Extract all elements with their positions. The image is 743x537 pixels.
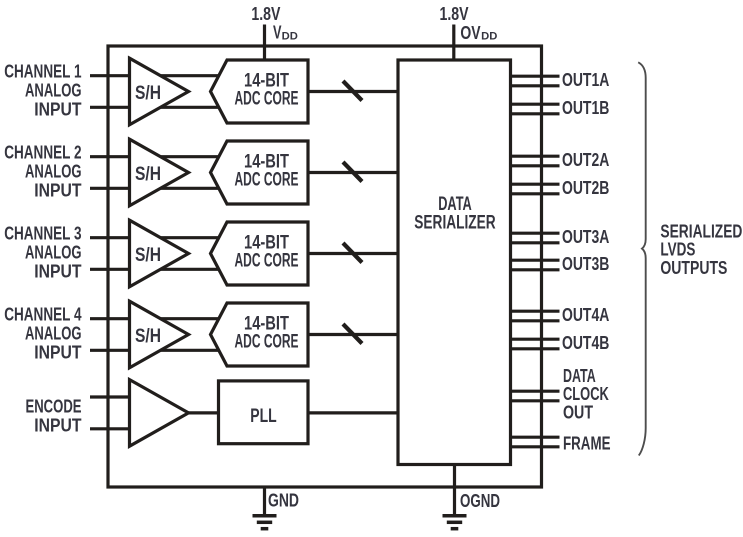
svg-text:INPUT: INPUT [34, 99, 81, 119]
svg-text:INPUT: INPUT [34, 342, 81, 362]
svg-text:CHANNEL 2: CHANNEL 2 [4, 143, 81, 163]
svg-text:OUT1B: OUT1B [562, 98, 609, 118]
svg-text:INPUT: INPUT [34, 415, 81, 435]
svg-text:PLL: PLL [250, 405, 276, 427]
svg-text:SERIALIZED: SERIALIZED [660, 222, 742, 242]
svg-text:ANALOG: ANALOG [25, 81, 82, 101]
svg-text:ENCODE: ENCODE [26, 397, 82, 417]
svg-text:S/H: S/H [135, 325, 161, 347]
svg-text:OUTPUTS: OUTPUTS [660, 258, 727, 278]
svg-text:S/H: S/H [135, 244, 161, 266]
svg-text:CHANNEL 4: CHANNEL 4 [4, 305, 81, 325]
svg-text:OUT3A: OUT3A [562, 227, 609, 247]
svg-text:OUT4B: OUT4B [562, 333, 609, 353]
svg-text:FRAME: FRAME [563, 433, 611, 453]
svg-text:LVDS: LVDS [660, 240, 695, 260]
svg-text:ADC CORE: ADC CORE [235, 168, 299, 190]
svg-text:V: V [273, 22, 282, 42]
svg-text:ANALOG: ANALOG [25, 162, 82, 182]
svg-text:OV: OV [460, 23, 480, 43]
svg-text:S/H: S/H [135, 82, 161, 104]
svg-text:GND: GND [268, 491, 299, 511]
svg-text:CHANNEL 3: CHANNEL 3 [4, 224, 81, 244]
svg-text:ANALOG: ANALOG [25, 324, 82, 344]
svg-text:OUT1A: OUT1A [562, 70, 609, 90]
svg-text:1.8V: 1.8V [440, 4, 469, 24]
svg-text:DD: DD [481, 31, 497, 43]
svg-text:1.8V: 1.8V [251, 4, 280, 24]
svg-text:OUT3B: OUT3B [562, 254, 609, 274]
svg-text:DATA: DATA [563, 366, 596, 386]
svg-text:CHANNEL 1: CHANNEL 1 [4, 62, 81, 82]
svg-text:DD: DD [282, 31, 298, 43]
svg-text:ANALOG: ANALOG [25, 243, 82, 263]
svg-text:INPUT: INPUT [34, 180, 81, 200]
svg-text:OUT4A: OUT4A [562, 305, 609, 325]
svg-text:ADC CORE: ADC CORE [235, 330, 299, 352]
svg-text:ADC CORE: ADC CORE [235, 87, 299, 109]
svg-text:OUT2B: OUT2B [562, 178, 609, 198]
svg-text:SERIALIZER: SERIALIZER [414, 212, 495, 234]
svg-text:OUT: OUT [563, 402, 593, 422]
svg-text:INPUT: INPUT [34, 261, 81, 281]
svg-text:OGND: OGND [460, 491, 500, 511]
svg-text:ADC CORE: ADC CORE [235, 249, 299, 271]
svg-text:CLOCK: CLOCK [563, 384, 609, 404]
svg-text:S/H: S/H [135, 163, 161, 185]
svg-text:OUT2A: OUT2A [562, 150, 609, 170]
